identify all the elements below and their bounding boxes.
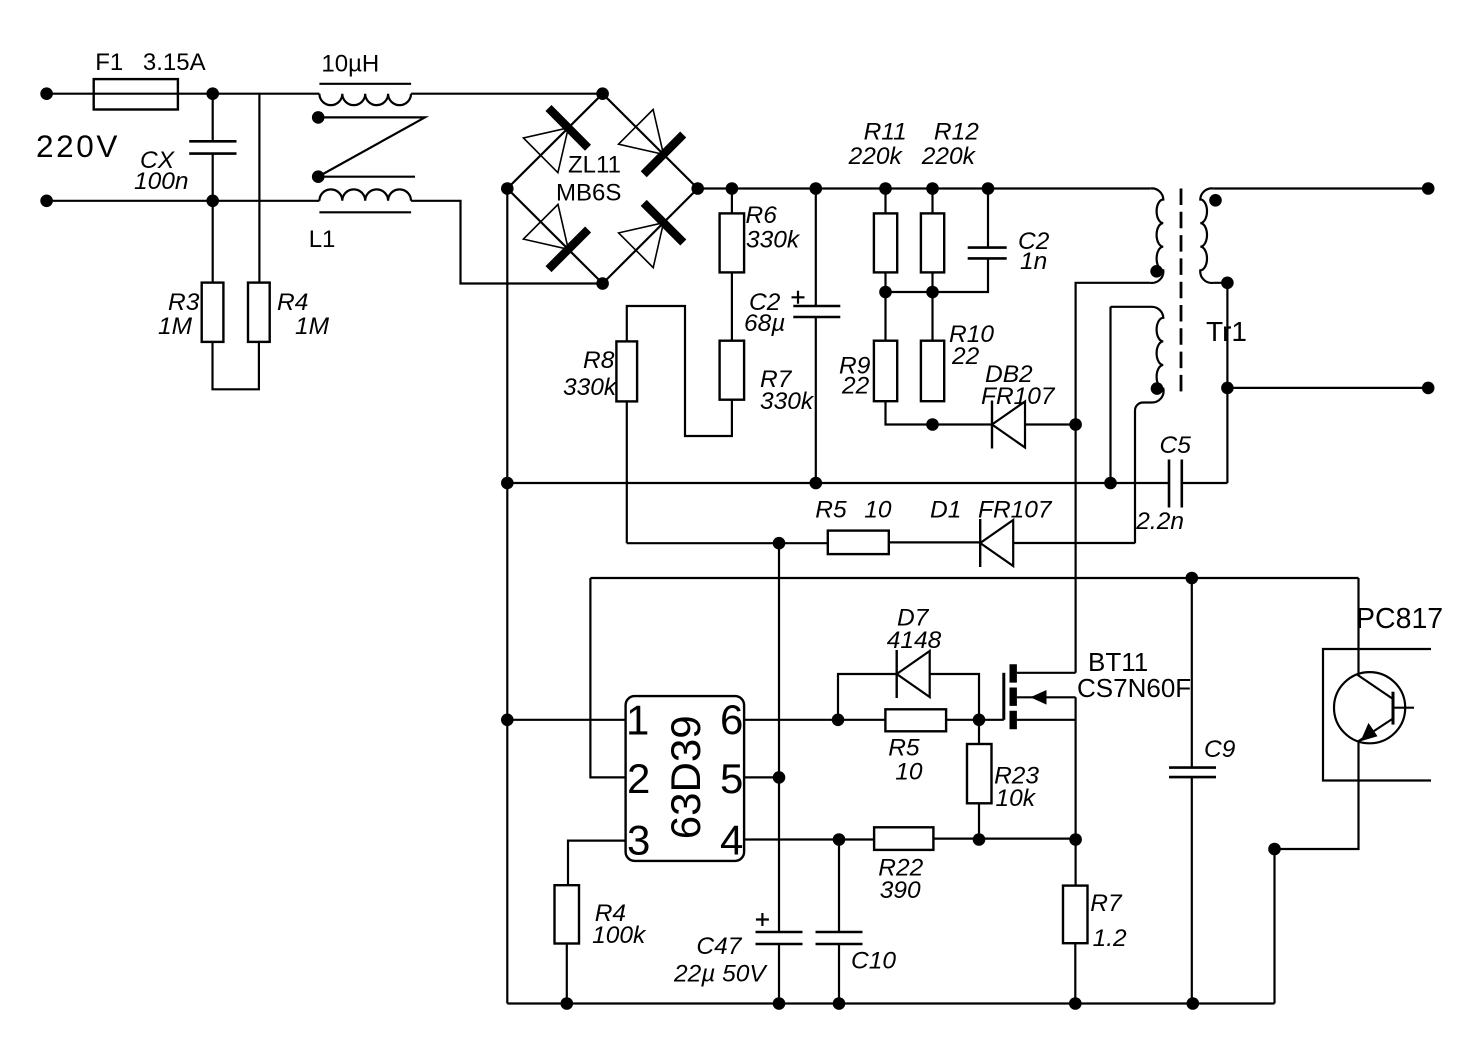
- label + (C47): [756, 913, 769, 926]
- wire: R11 bottom to R9 top: [884, 272, 886, 340]
- MOSFET body arrow head: [1030, 690, 1046, 705]
- svg-text:MB6S: MB6S: [556, 180, 621, 207]
- svg-text:2.2n: 2.2n: [1135, 508, 1184, 535]
- MOSFET channel bar (dashes): [1010, 664, 1017, 729]
- wire: sense node to R7: [1074, 840, 1076, 886]
- wire: pin 3 to R4: [568, 841, 626, 886]
- resistor R22: [874, 827, 933, 850]
- svg-text:22: 22: [951, 343, 980, 370]
- diode D-D (bottom-right) (bridge arm): [619, 203, 684, 268]
- wire: R8 line to R5: [627, 542, 828, 544]
- wire: R7 bottom to bus: [1074, 943, 1076, 1003]
- capacitor C5: [1169, 460, 1182, 508]
- svg-text:10: 10: [864, 497, 892, 524]
- junction: C47 on bottom bus: [773, 997, 786, 1010]
- PC817 base stub: [1393, 707, 1414, 709]
- transformer Tr1 secondary winding: [1200, 188, 1213, 283]
- transformer Tr1 auxiliary winding: [1111, 307, 1164, 543]
- capacitor C2 1n (snubber): [968, 248, 1007, 259]
- wire: choke top to bridge top vertex: [411, 93, 602, 95]
- svg-text:330k: 330k: [760, 388, 815, 415]
- MOSFET body arrow lead: [1017, 696, 1076, 698]
- junction: snubber tap on drain line: [1069, 418, 1082, 431]
- PC817 collector diagonal: [1358, 675, 1393, 699]
- node: output terminal top: [1422, 182, 1435, 195]
- svg-text:R4: R4: [277, 289, 308, 316]
- svg-text:6: 6: [720, 696, 743, 743]
- inductor L1 bottom winding: [319, 189, 411, 212]
- svg-text:C9: C9: [1204, 736, 1236, 763]
- wire: C9 top lead: [1191, 578, 1193, 768]
- L1 polarity dot top: [312, 111, 325, 124]
- transistor BT11 CS7N60F (MOSFET) gate bar: [1002, 673, 1005, 720]
- wire: output bottom line: [1227, 387, 1428, 389]
- svg-text:1n: 1n: [1020, 248, 1047, 275]
- wire: C10 bottom to bus: [838, 944, 840, 1004]
- resistor R4 (input bleeder): [248, 283, 270, 342]
- inductor L1 top winding: [319, 84, 411, 105]
- wire: pin 4 line: [744, 838, 874, 840]
- svg-text:100n: 100n: [134, 168, 189, 195]
- junction: pin 5 node: [773, 771, 786, 784]
- diode D-C (bottom-left) (bridge arm): [523, 204, 588, 269]
- wire: R12 top lead: [931, 189, 933, 214]
- junction: D7/R5 left node on pin6 line: [832, 714, 845, 727]
- junction: D7/R5 right node (gate side): [973, 714, 986, 727]
- node: AC input terminal top: [40, 87, 53, 100]
- svg-text:22µ 50V: 22µ 50V: [673, 961, 768, 988]
- wire: CX leads: [212, 94, 214, 201]
- svg-text:CS7N60F: CS7N60F: [1077, 673, 1191, 703]
- svg-text:5: 5: [720, 755, 743, 802]
- wire: C5 right plate to secondary bottom: [1182, 482, 1228, 484]
- svg-text:10k: 10k: [996, 785, 1037, 812]
- svg-text:R8: R8: [583, 347, 615, 374]
- svg-text:4: 4: [720, 817, 743, 864]
- node: output terminal bottom: [1422, 382, 1435, 395]
- wire: C2 1n bottom to R11/R12 bottom rail: [886, 258, 989, 292]
- wire: C2 1n top lead: [987, 189, 989, 248]
- resistor R5 (10, aux): [828, 531, 889, 555]
- wire: top input from terminal to fuse: [47, 93, 94, 95]
- svg-text:C10: C10: [851, 947, 896, 974]
- capacitor C9: [1169, 768, 1216, 778]
- wire: source down to current sense node: [1074, 697, 1076, 839]
- wire: D1 anode to aux winding bottom: [1013, 542, 1135, 544]
- svg-text:C5: C5: [1160, 432, 1192, 459]
- wire: R22 right to sense node: [933, 837, 1075, 839]
- svg-text:330k: 330k: [563, 374, 618, 401]
- resistor R8: [616, 341, 637, 401]
- wire: C2 68µ bottom lead to ground bus: [815, 317, 817, 483]
- wire: secondary bottom jog down: [1213, 283, 1227, 483]
- wire: Vcc/feedback line from pin 2 to optocoupler collector: [590, 577, 1358, 579]
- wire: R7 bottom S-bend to R8 top: [627, 306, 732, 436]
- junction: bridge bottom vertex: [596, 277, 609, 290]
- svg-text:100k: 100k: [592, 922, 647, 949]
- wire: bottom ground bus: [507, 1002, 1274, 1004]
- svg-text:F1: F1: [95, 49, 123, 76]
- junction: R23 bottom on sense line: [973, 833, 986, 846]
- wire: R11 top lead: [884, 189, 886, 214]
- svg-text:R12: R12: [934, 119, 979, 146]
- svg-text:ZL11: ZL11: [568, 152, 621, 179]
- wire: collector riser: [1357, 578, 1359, 675]
- resistor R6: [720, 213, 745, 272]
- wire: C10 top lead to pin4 line: [838, 840, 840, 933]
- PC817 emitter diagonal: [1358, 719, 1393, 742]
- junction: R7 on bottom bus: [1069, 997, 1082, 1010]
- wire: fuse to choke top: [178, 93, 320, 95]
- resistor R7 (330k): [720, 341, 745, 400]
- wire: R3/R4 bottom join: [213, 342, 259, 389]
- wire: C47 bottom to bus: [778, 944, 780, 1004]
- fuse F1: [94, 79, 178, 109]
- svg-text:R7: R7: [1090, 890, 1123, 917]
- svg-text:1: 1: [626, 697, 649, 744]
- junction: aux winding on ground bus: [1104, 477, 1117, 490]
- wire: bottom input line: [47, 200, 320, 202]
- wire: R6 top lead: [731, 189, 733, 214]
- svg-text:D1: D1: [930, 497, 961, 524]
- capacitor CX: [189, 141, 236, 153]
- svg-text:PC817: PC817: [1356, 603, 1443, 635]
- resistor R10: [921, 341, 944, 402]
- wire: HV+ bus from bridge to transformer: [698, 187, 1150, 189]
- wire: pin 2 riser: [590, 578, 625, 777]
- resistor R12: [921, 213, 944, 272]
- junction: source/R7 sense node: [1069, 833, 1082, 846]
- wire: pin 1 to negative rail: [507, 719, 625, 721]
- capacitor C2 68µ (bulk): [793, 306, 840, 317]
- wire: pin 5 stub: [744, 776, 779, 778]
- junction: C2 68µ on HV bus: [810, 182, 823, 195]
- diode D-A (top-left) (bridge arm): [523, 108, 588, 173]
- svg-text:4148: 4148: [887, 627, 942, 654]
- junction: C9 top tap: [1186, 572, 1199, 585]
- junction: CX top node: [206, 87, 219, 100]
- wire: DB2 anode to drain line: [1025, 423, 1076, 425]
- svg-text:3: 3: [627, 817, 650, 864]
- junction: C10 tap on pin4 line: [833, 833, 846, 846]
- svg-text:63D39: 63D39: [662, 715, 709, 839]
- svg-text:R6: R6: [746, 202, 778, 229]
- junction: C2 68µ bottom on ground bus: [810, 477, 823, 490]
- optocoupler PC817 package box: [1323, 649, 1431, 781]
- svg-text:R11: R11: [864, 119, 907, 146]
- resistor R3: [202, 283, 224, 342]
- svg-text:10: 10: [895, 758, 923, 785]
- wire: primary ground bus: [507, 482, 1169, 484]
- svg-text:FR107: FR107: [981, 383, 1056, 410]
- svg-text:R3: R3: [168, 289, 200, 316]
- wire: R8 bottom down to gate-drive return line: [626, 401, 628, 543]
- wire: C2 68µ top lead: [815, 189, 817, 307]
- MOSFET source lead: [1017, 719, 1076, 721]
- PC817 phototransistor circle: [1334, 672, 1405, 743]
- resistor R11: [874, 213, 897, 272]
- junction: R11 bottom: [879, 286, 892, 299]
- capacitor C10: [816, 932, 863, 944]
- svg-text:1M: 1M: [295, 313, 330, 340]
- junction: ground bus at negative rail: [501, 477, 514, 490]
- wire: emitter corner down to bottom bus: [1273, 849, 1275, 1004]
- wire: primary bottom to MOSFET drain: [1076, 283, 1151, 673]
- junction: CX bottom node: [206, 195, 219, 208]
- svg-text:C47: C47: [696, 933, 742, 960]
- junction: pin1 on negative rail: [501, 714, 514, 727]
- junction: R12 bottom: [926, 286, 939, 299]
- wire: choke bottom to bridge bottom vertex: [411, 201, 602, 284]
- diode D-B (top-right) (bridge arm): [619, 110, 684, 175]
- resistor R4 (100k): [555, 885, 580, 943]
- wire: bridge negative rail down left side: [506, 189, 508, 1004]
- diode DB2 FR107: [992, 401, 1025, 449]
- wire: D7 left leg: [838, 674, 897, 720]
- MOSFET drain lead: [1017, 672, 1076, 674]
- wire: R4 bottom to bottom bus: [566, 944, 568, 1004]
- svg-text:FR107: FR107: [978, 497, 1053, 524]
- svg-text:68µ: 68µ: [744, 310, 785, 337]
- svg-text:2: 2: [627, 755, 650, 802]
- svg-text:330k: 330k: [746, 227, 801, 254]
- wire: auxiliary top to primary ground bus: [1109, 307, 1111, 483]
- diode D7 4148: [897, 650, 930, 698]
- bridge rectifier ZL11 MB6S: diamond arms: [507, 94, 697, 284]
- junction: R12 on HV bus: [926, 182, 939, 195]
- wire: C9 bottom lead: [1191, 777, 1193, 1003]
- junction: C10 on bottom bus: [833, 997, 846, 1010]
- junction: emitter corner dot: [1268, 843, 1281, 856]
- Tr1 secondary polarity dot: [1209, 194, 1222, 207]
- Tr1 auxiliary polarity dot: [1151, 382, 1164, 395]
- node: AC input terminal bottom: [40, 195, 53, 208]
- svg-text:1M: 1M: [158, 313, 193, 340]
- wire: R6 to R7: [731, 272, 733, 340]
- svg-text:10µH: 10µH: [321, 50, 379, 77]
- svg-text:3.15A: 3.15A: [143, 49, 206, 76]
- L1 core link lines: [318, 117, 425, 176]
- svg-text:22: 22: [841, 372, 870, 399]
- svg-text:R5: R5: [888, 734, 920, 761]
- junction: R6 tap on HV bus: [726, 182, 739, 195]
- diode D1 FR107: [980, 519, 1013, 567]
- wire: R23 top lead: [978, 720, 980, 744]
- junction: secondary bottom corner dot: [1221, 277, 1234, 290]
- wire: C47 riser (R5 tap down through pin5 to C47): [778, 543, 780, 932]
- junction: bridge top vertex: [596, 87, 609, 100]
- svg-text:R5: R5: [815, 497, 847, 524]
- wire: R23 bottom lead: [978, 803, 980, 839]
- junction: R11 on HV bus: [879, 182, 892, 195]
- IC U1 63D39 body: [626, 696, 745, 861]
- junction: C47 feed tap: [773, 537, 786, 550]
- svg-text:390: 390: [880, 877, 921, 904]
- svg-text:L1: L1: [309, 226, 336, 253]
- junction: output bottom tap: [1221, 382, 1234, 395]
- Tr1 primary polarity dot: [1150, 265, 1163, 278]
- svg-text:220k: 220k: [921, 143, 977, 170]
- junction: bridge left vertex: [501, 182, 514, 195]
- label + (C2 bulk polarity): [792, 291, 805, 304]
- svg-text:220V: 220V: [36, 128, 120, 164]
- junction: R4 on bottom bus: [561, 997, 574, 1010]
- junction: R10 bottom: [926, 418, 939, 431]
- capacitor C47 22µ 50V: [756, 932, 803, 944]
- wire: D7 right leg: [930, 674, 979, 720]
- svg-text:1.2: 1.2: [1093, 925, 1127, 952]
- junction: C2 1n on HV bus: [982, 182, 995, 195]
- resistor R7 (1.2): [1063, 886, 1088, 944]
- svg-text:220k: 220k: [848, 143, 904, 170]
- wire: R12 bottom to R10 top: [931, 272, 933, 340]
- junction: bridge right vertex: [691, 182, 704, 195]
- wire: pin 6 line to gate: [744, 719, 1004, 721]
- junction: C9 on bottom bus: [1187, 997, 1200, 1010]
- wire: R3 lead from bottom line: [212, 201, 214, 283]
- transformer Tr1 core: [1180, 189, 1183, 394]
- L1 polarity dot bottom: [312, 170, 325, 183]
- wire: emitter down to corner: [1275, 743, 1359, 850]
- transformer Tr1 primary winding: [1150, 188, 1163, 283]
- PC817 transistor base bar: [1392, 692, 1395, 725]
- wire: R4 lead from top line: [258, 94, 260, 283]
- resistor R23: [967, 744, 992, 803]
- resistor R5 (10, gate): [885, 709, 946, 731]
- wire: R5 to D1 cathode: [889, 541, 980, 543]
- wire: R9/R10 bottoms to DB2 cathode: [886, 401, 993, 424]
- resistor R9: [874, 341, 897, 402]
- PC817 emitter arrow: [1361, 723, 1378, 741]
- wire: secondary top to output terminal: [1213, 187, 1428, 189]
